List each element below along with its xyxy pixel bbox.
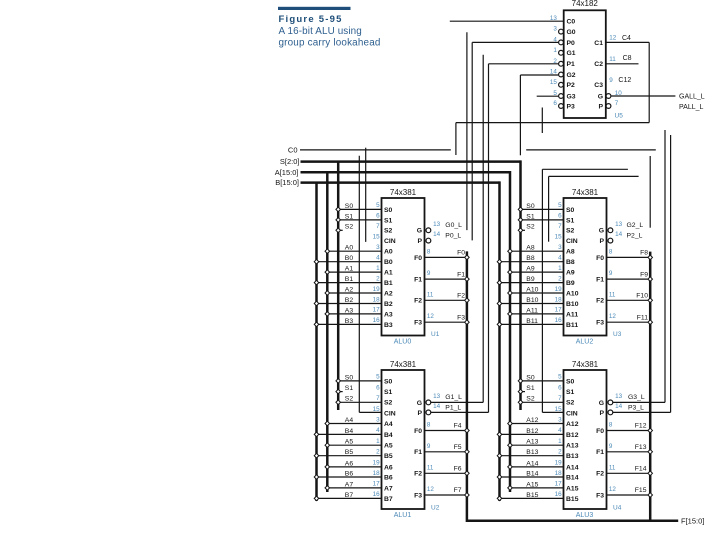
svg-text:S0: S0 [566,207,575,214]
svg-text:U2: U2 [431,505,440,512]
svg-text:7: 7 [376,395,380,402]
svg-text:12: 12 [427,486,435,493]
svg-text:F2: F2 [457,293,465,300]
svg-text:74x381: 74x381 [572,188,599,197]
svg-text:B15: B15 [566,496,579,503]
svg-text:1: 1 [376,438,380,445]
svg-text:5: 5 [376,374,380,381]
svg-text:A6: A6 [384,464,393,471]
svg-text:A15: A15 [566,485,579,492]
svg-text:F3: F3 [414,492,422,499]
svg-text:G0_L: G0_L [445,222,462,229]
svg-text:F13: F13 [635,444,647,451]
svg-text:PALL_L: PALL_L [679,104,703,111]
svg-text:S[2:0]: S[2:0] [280,157,300,166]
svg-text:P: P [417,410,422,417]
svg-text:F2: F2 [596,471,604,478]
svg-text:15: 15 [555,406,563,413]
svg-text:16: 16 [373,317,381,324]
svg-text:B[15:0]: B[15:0] [275,178,299,187]
svg-text:B2: B2 [345,297,354,304]
svg-text:A7: A7 [384,485,393,492]
svg-text:14: 14 [615,403,623,410]
svg-text:13: 13 [433,393,441,400]
svg-text:B14: B14 [566,474,579,481]
svg-text:F5: F5 [454,444,462,451]
svg-text:8: 8 [609,422,613,429]
svg-text:S2: S2 [566,228,575,235]
svg-text:A6: A6 [345,460,354,467]
svg-text:F1: F1 [457,271,465,278]
svg-text:B3: B3 [345,318,354,325]
svg-text:B9: B9 [566,280,575,287]
svg-text:13: 13 [615,393,623,400]
svg-text:1: 1 [376,265,380,272]
svg-text:A11: A11 [526,307,538,314]
svg-text:S2: S2 [526,396,535,403]
svg-text:1: 1 [558,438,562,445]
svg-text:Figure 5-95: Figure 5-95 [279,14,343,25]
svg-text:B12: B12 [526,428,538,435]
svg-text:U5: U5 [615,113,624,120]
svg-text:ALU2: ALU2 [576,339,594,346]
svg-text:4: 4 [376,427,380,434]
svg-text:B1: B1 [345,276,354,283]
svg-text:17: 17 [555,307,563,314]
svg-text:B5: B5 [345,449,354,456]
svg-text:B11: B11 [526,318,538,325]
svg-text:U1: U1 [431,331,440,338]
svg-text:S1: S1 [345,213,354,220]
svg-text:19: 19 [555,286,563,293]
svg-text:group carry lookahead: group carry lookahead [279,37,381,48]
svg-text:F1: F1 [414,449,422,456]
svg-text:19: 19 [373,460,381,467]
svg-text:S0: S0 [526,374,535,381]
svg-text:2: 2 [558,449,562,456]
svg-text:F15: F15 [635,487,647,494]
svg-text:12: 12 [427,313,435,320]
svg-text:B15: B15 [526,492,538,499]
svg-text:A3: A3 [384,311,393,318]
svg-text:G: G [598,93,603,100]
svg-text:GALL_L: GALL_L [679,94,705,101]
svg-text:3: 3 [558,244,562,251]
svg-text:C3: C3 [594,82,603,89]
svg-text:11: 11 [609,464,616,471]
svg-text:ALU0: ALU0 [394,339,412,346]
svg-text:F3: F3 [596,492,604,499]
svg-text:B2: B2 [384,301,393,308]
svg-text:A14: A14 [566,464,579,471]
svg-text:S0: S0 [566,378,575,385]
svg-text:S0: S0 [345,203,354,210]
svg-text:U3: U3 [613,331,622,338]
svg-text:19: 19 [555,460,563,467]
svg-text:13: 13 [615,221,623,228]
svg-text:G2: G2 [567,72,576,79]
svg-text:S0: S0 [345,374,354,381]
svg-text:F0: F0 [414,428,422,435]
svg-text:F0: F0 [596,428,604,435]
svg-text:A8: A8 [566,249,575,256]
svg-text:B1: B1 [384,280,393,287]
svg-text:CIN: CIN [566,410,578,417]
svg-text:B6: B6 [345,470,354,477]
svg-text:F12: F12 [635,423,647,430]
svg-text:11: 11 [427,291,434,298]
svg-text:12: 12 [609,34,617,41]
svg-text:4: 4 [558,255,562,262]
svg-text:B6: B6 [384,474,393,481]
svg-text:A 16-bit ALU using: A 16-bit ALU using [279,26,362,37]
svg-text:A1: A1 [384,270,393,277]
svg-text:P: P [599,410,604,417]
svg-text:15: 15 [373,406,381,413]
svg-text:S1: S1 [384,389,393,396]
svg-text:F10: F10 [636,293,648,300]
svg-text:P3_L: P3_L [628,404,644,411]
svg-text:F14: F14 [635,466,647,473]
svg-text:9: 9 [609,77,613,84]
svg-text:B7: B7 [345,492,354,499]
svg-text:C2: C2 [594,61,603,68]
svg-text:B5: B5 [384,453,393,460]
svg-text:A2: A2 [384,290,393,297]
svg-text:74x381: 74x381 [390,360,417,369]
svg-text:4: 4 [558,427,562,434]
svg-text:F1: F1 [596,277,604,284]
svg-text:B10: B10 [566,301,579,308]
svg-text:A1: A1 [345,266,354,273]
svg-text:3: 3 [376,244,380,251]
svg-text:P: P [598,103,603,110]
svg-text:15: 15 [555,234,563,241]
svg-text:A13: A13 [526,439,538,446]
svg-text:G0: G0 [567,29,576,36]
svg-text:4: 4 [553,36,557,43]
svg-text:S1: S1 [384,217,393,224]
svg-text:C0: C0 [567,19,576,26]
svg-text:5: 5 [376,202,380,209]
svg-text:B14: B14 [526,470,538,477]
svg-text:A14: A14 [526,460,538,467]
svg-text:7: 7 [558,223,562,230]
svg-text:9: 9 [609,443,613,450]
svg-text:C1: C1 [594,40,603,47]
svg-text:7: 7 [376,223,380,230]
svg-text:A5: A5 [345,439,354,446]
svg-text:CIN: CIN [384,238,396,245]
svg-text:S2: S2 [345,396,354,403]
svg-text:F3: F3 [414,320,422,327]
svg-text:F1: F1 [414,277,422,284]
svg-text:P3: P3 [567,103,576,110]
svg-text:G: G [599,400,604,407]
svg-text:4: 4 [376,255,380,262]
svg-text:8: 8 [609,248,613,255]
svg-text:F6: F6 [454,466,462,473]
svg-text:1: 1 [553,47,557,54]
svg-text:74x381: 74x381 [390,188,417,197]
svg-text:P0_L: P0_L [445,233,461,240]
svg-text:6: 6 [558,213,562,220]
svg-text:ALU3: ALU3 [576,512,594,519]
svg-text:B13: B13 [526,449,538,456]
svg-text:14: 14 [615,231,623,238]
svg-text:5: 5 [558,202,562,209]
svg-text:A8: A8 [526,245,535,252]
svg-text:G1_L: G1_L [445,394,462,401]
svg-text:B8: B8 [526,255,535,262]
svg-text:S2: S2 [345,224,354,231]
svg-text:S2: S2 [526,224,535,231]
svg-text:CIN: CIN [566,238,578,245]
svg-text:S2: S2 [384,228,393,235]
svg-text:B10: B10 [526,297,538,304]
svg-text:14: 14 [433,231,441,238]
svg-text:P1_L: P1_L [445,404,461,411]
svg-text:9: 9 [609,270,613,277]
svg-text:F3: F3 [457,314,465,321]
svg-text:5: 5 [553,90,557,97]
svg-text:F2: F2 [414,471,422,478]
svg-text:8: 8 [427,422,431,429]
svg-text:B3: B3 [384,322,393,329]
svg-text:F0: F0 [596,255,604,262]
svg-text:6: 6 [376,384,380,391]
svg-text:G2_L: G2_L [627,222,644,229]
svg-text:A9: A9 [566,270,575,277]
svg-text:12: 12 [609,486,617,493]
svg-text:74x381: 74x381 [572,360,599,369]
svg-text:11: 11 [609,291,616,298]
svg-text:18: 18 [373,470,381,477]
svg-text:19: 19 [373,286,381,293]
svg-text:7: 7 [558,395,562,402]
svg-text:F1: F1 [596,449,604,456]
svg-text:15: 15 [373,234,381,241]
svg-text:A12: A12 [566,421,579,428]
svg-text:F2: F2 [596,298,604,305]
svg-text:A4: A4 [384,421,393,428]
svg-text:S2: S2 [566,400,575,407]
svg-text:F0: F0 [457,250,465,257]
svg-text:P: P [417,238,422,245]
svg-text:B8: B8 [566,259,575,266]
svg-text:11: 11 [609,56,616,63]
svg-text:7: 7 [615,100,619,107]
svg-text:B7: B7 [384,496,393,503]
svg-text:9: 9 [427,270,431,277]
svg-text:C8: C8 [623,55,632,62]
svg-text:A2: A2 [345,286,354,293]
svg-text:F8: F8 [640,250,648,257]
svg-text:F4: F4 [454,423,462,430]
svg-text:S1: S1 [566,389,575,396]
svg-text:B9: B9 [526,276,535,283]
svg-text:14: 14 [550,69,558,76]
svg-text:17: 17 [373,307,381,314]
svg-text:B0: B0 [384,259,393,266]
svg-text:A12: A12 [526,417,538,424]
svg-text:A0: A0 [345,245,354,252]
svg-text:P0: P0 [567,40,576,47]
svg-text:15: 15 [550,79,558,86]
svg-text:C12: C12 [618,77,631,84]
svg-text:S1: S1 [566,217,575,224]
svg-text:A[15:0]: A[15:0] [275,168,299,177]
svg-text:13: 13 [433,221,441,228]
svg-text:5: 5 [558,374,562,381]
svg-text:S2: S2 [384,400,393,407]
svg-text:A11: A11 [566,311,578,318]
svg-text:74x182: 74x182 [572,0,599,8]
svg-text:B0: B0 [345,255,354,262]
svg-text:16: 16 [555,491,563,498]
svg-text:S1: S1 [526,385,535,392]
svg-text:U4: U4 [613,505,622,512]
svg-text:B4: B4 [384,432,393,439]
svg-text:F[15:0]: F[15:0] [681,516,704,525]
svg-text:3: 3 [553,26,557,33]
svg-text:A4: A4 [345,417,354,424]
svg-text:6: 6 [553,100,557,107]
svg-text:F11: F11 [637,314,648,321]
svg-text:A10: A10 [566,290,579,297]
svg-text:1: 1 [558,265,562,272]
svg-text:F2: F2 [414,298,422,305]
svg-text:G3: G3 [567,93,576,100]
svg-text:C4: C4 [622,35,631,42]
svg-text:F3: F3 [596,320,604,327]
svg-text:11: 11 [427,464,434,471]
svg-text:F0: F0 [414,255,422,262]
svg-text:9: 9 [427,443,431,450]
svg-text:G1: G1 [567,50,576,57]
svg-text:16: 16 [373,491,381,498]
svg-text:P2: P2 [567,82,576,89]
svg-text:8: 8 [427,248,431,255]
svg-text:A13: A13 [566,443,579,450]
svg-text:A0: A0 [384,249,393,256]
svg-text:B12: B12 [566,432,579,439]
svg-text:6: 6 [558,384,562,391]
svg-text:16: 16 [555,317,563,324]
svg-text:S0: S0 [526,203,535,210]
svg-text:B13: B13 [566,453,579,460]
svg-text:17: 17 [555,481,563,488]
svg-text:C0: C0 [288,145,298,154]
svg-text:S1: S1 [526,213,535,220]
svg-text:P2_L: P2_L [627,233,643,240]
svg-text:G: G [599,228,604,235]
svg-text:2: 2 [553,58,557,65]
svg-text:B11: B11 [566,322,578,329]
svg-text:A15: A15 [526,481,538,488]
svg-text:17: 17 [373,481,381,488]
svg-text:B4: B4 [345,428,354,435]
svg-text:2: 2 [376,449,380,456]
svg-text:14: 14 [433,403,441,410]
svg-text:CIN: CIN [384,410,396,417]
svg-text:12: 12 [609,313,617,320]
svg-text:A3: A3 [345,307,354,314]
svg-text:G: G [417,228,422,235]
svg-text:S1: S1 [345,385,354,392]
svg-text:P: P [599,238,604,245]
svg-text:18: 18 [555,296,563,303]
svg-text:A9: A9 [526,266,535,273]
svg-text:G3_L: G3_L [628,394,645,401]
svg-text:ALU1: ALU1 [394,512,412,519]
svg-text:A5: A5 [384,443,393,450]
svg-text:6: 6 [376,213,380,220]
svg-text:2: 2 [558,275,562,282]
svg-text:18: 18 [555,470,563,477]
svg-text:A10: A10 [526,286,538,293]
svg-text:A7: A7 [345,481,354,488]
svg-text:G: G [417,400,422,407]
svg-text:3: 3 [376,416,380,423]
svg-text:P1: P1 [567,61,576,68]
svg-text:S0: S0 [384,378,393,385]
svg-text:18: 18 [373,296,381,303]
svg-text:3: 3 [558,416,562,423]
svg-text:S0: S0 [384,207,393,214]
svg-text:F9: F9 [640,271,648,278]
svg-text:2: 2 [376,275,380,282]
svg-text:F7: F7 [454,487,462,494]
